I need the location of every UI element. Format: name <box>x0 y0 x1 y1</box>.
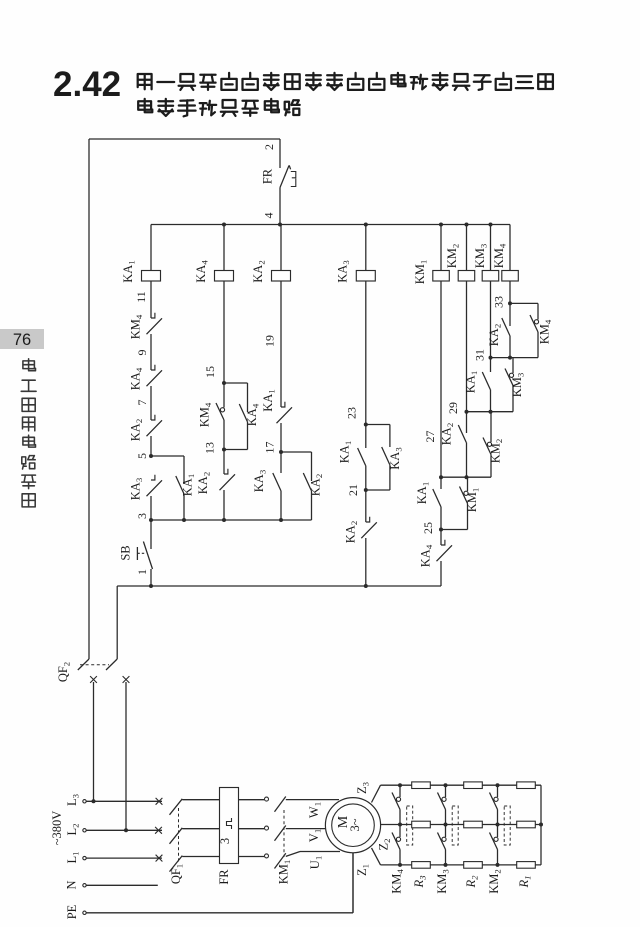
svg-text:KM4: KM4 <box>198 402 214 427</box>
rotor contactor KM3 lower contact <box>442 837 446 841</box>
svg-text:13: 13 <box>203 442 217 454</box>
svg-text:~380V: ~380V <box>50 811 64 846</box>
contactor KM1 main L3 blade <box>275 797 286 812</box>
svg-text:R3: R3 <box>412 875 428 889</box>
terminal x pole 2 <box>123 676 130 683</box>
wire node5 branch right <box>151 455 184 457</box>
svg-text:29: 29 <box>446 402 460 414</box>
contact KM1 circle-NO (branch) <box>464 491 468 495</box>
contact KA3 NO (col C) <box>273 473 281 491</box>
contactor KM1 main L3 circle <box>265 797 269 801</box>
wire branch drop KA1 <box>183 456 185 484</box>
resistor R1 row1 <box>517 782 536 789</box>
wire Z3 diagonal <box>372 785 381 802</box>
junction dots on rail 4 <box>222 223 226 227</box>
svg-text:3: 3 <box>218 838 232 844</box>
terminal circle PE <box>83 911 86 914</box>
terminal circle L3 <box>83 800 86 803</box>
junction <box>364 584 368 588</box>
KM1 power link <box>283 810 285 857</box>
terminal circle N <box>83 884 86 887</box>
wire <box>223 450 225 475</box>
wire PE <box>86 912 353 914</box>
pushbutton SB <box>136 547 138 560</box>
junction <box>279 518 283 522</box>
wire rail4 to coil KA2 <box>280 225 282 271</box>
rotor contactor KM3 junction dots <box>444 783 448 787</box>
contact KA3 NO (col D branch) <box>382 447 390 465</box>
title line 1 (Chinese) <box>138 74 152 89</box>
svg-text:KA1: KA1 <box>121 260 137 282</box>
svg-text:KA2: KA2 <box>440 423 456 445</box>
junction <box>222 518 226 522</box>
svg-text:KA1: KA1 <box>415 482 431 504</box>
wire node33 line <box>510 302 538 304</box>
node 33 junction <box>508 301 512 305</box>
svg-text:QF2: QF2 <box>56 662 72 682</box>
contact KA4 NC (col A) <box>147 370 163 386</box>
wire to U1 <box>286 852 300 857</box>
svg-text:FR: FR <box>261 168 275 184</box>
wire rail4 to coil KM3 <box>490 225 492 271</box>
wire to W1 <box>286 799 339 801</box>
rotor contactor KM2 link box <box>504 806 510 845</box>
wire SB to rail <box>150 569 152 586</box>
wire to bus3 <box>223 490 225 520</box>
rotor contactor KM2 wire mid <box>497 810 499 825</box>
wire to rail <box>440 561 442 586</box>
svg-text:11: 11 <box>134 291 148 303</box>
wire PE up to motor <box>352 853 354 913</box>
relay coil KM3 <box>482 271 499 282</box>
resistor R2 row3 <box>464 862 483 869</box>
wire rail4 to coil KA3 <box>365 225 367 271</box>
svg-text:15: 15 <box>203 366 217 378</box>
wire FR out L1 <box>239 856 265 858</box>
contactor KM1 main L1 blade <box>275 853 286 868</box>
svg-text:KM4: KM4 <box>390 869 406 894</box>
contact KA2 NO (col F) <box>458 425 466 443</box>
rotor contactor KM2 junction dots <box>496 783 500 787</box>
wire <box>223 420 225 450</box>
wire rotor row3 <box>381 864 542 866</box>
contact KA4 NC (col E) <box>437 545 453 561</box>
wire QF1 out L1 <box>182 856 219 858</box>
svg-text:KA4: KA4 <box>129 367 145 390</box>
svg-text:R2: R2 <box>464 875 480 889</box>
node 4 junction dot <box>278 223 282 227</box>
resistor R3 row3 <box>412 862 431 869</box>
x mark L3 <box>156 798 163 805</box>
svg-text:2.42: 2.42 <box>53 65 121 104</box>
wire <box>247 422 249 450</box>
wire <box>490 455 492 478</box>
rotor contactor KM2 upper contact <box>497 785 499 797</box>
junction <box>92 799 96 803</box>
svg-text:5: 5 <box>135 453 149 459</box>
wire QF1 out L3 <box>182 799 219 801</box>
svg-text:76: 76 <box>13 331 31 349</box>
svg-text:L3: L3 <box>65 793 81 806</box>
QF2 mechanical link <box>80 664 109 666</box>
wire to rail <box>365 538 367 586</box>
thermal relay contact FR <box>280 166 289 188</box>
wire <box>150 436 152 456</box>
svg-text:KA1: KA1 <box>464 371 480 393</box>
wire bus node 3 <box>151 519 312 521</box>
wire <box>150 334 152 370</box>
wire node29 line <box>467 411 514 413</box>
wire <box>466 412 468 433</box>
wire <box>365 466 367 491</box>
svg-text:7: 7 <box>135 400 149 406</box>
wire FR drop <box>279 139 281 168</box>
rotor contactor KM4 upper contact <box>399 785 401 797</box>
wire branch drop <box>311 452 313 481</box>
junction dots 29 <box>465 410 469 414</box>
wire <box>440 507 442 530</box>
wire node17 branch right <box>281 451 312 453</box>
wire <box>150 386 152 420</box>
resistor R2 row2 <box>464 821 483 828</box>
rotor contactor KM4 link box <box>407 806 413 845</box>
resistor R3 row1 <box>412 782 431 789</box>
sidebar page number box <box>0 329 44 349</box>
svg-text:KA3: KA3 <box>129 477 145 500</box>
node 21 junction <box>364 488 368 492</box>
wire node31 line <box>491 357 539 359</box>
resistor R1 row2 <box>517 821 536 828</box>
wire QF2 pole1 to L3 <box>93 682 95 801</box>
contact KM4 circle-NO (col B) <box>220 408 224 412</box>
svg-text:9: 9 <box>135 350 149 356</box>
svg-text:KA2: KA2 <box>129 419 145 441</box>
wire to V1 <box>286 828 326 830</box>
rotor contactor KM3 wire bot <box>445 850 447 865</box>
svg-text:KA2: KA2 <box>309 474 325 496</box>
svg-text:KM3: KM3 <box>510 372 526 397</box>
contact KM4 circle-NO (branch) <box>534 320 538 324</box>
wire coil KM3 down <box>490 281 492 358</box>
breaker QF1 blade L1 <box>170 856 183 872</box>
svg-text:21: 21 <box>346 484 360 496</box>
motor M outer circle <box>325 798 380 853</box>
wire L3 <box>86 800 162 802</box>
FR box heater symbol <box>227 818 232 829</box>
relay coil KM1 <box>433 271 450 282</box>
svg-text:L2: L2 <box>65 823 81 835</box>
svg-text:Z2: Z2 <box>377 838 393 850</box>
svg-text:KA4: KA4 <box>194 260 210 283</box>
wire coil KA3 down <box>365 281 367 425</box>
title line 2 (Chinese) <box>138 99 152 112</box>
wire <box>509 303 511 326</box>
svg-text:33: 33 <box>492 296 506 308</box>
breaker QF2 pole 2 blade <box>106 659 117 670</box>
wire coil KM4 down <box>509 281 511 303</box>
svg-text:U1: U1 <box>308 856 324 869</box>
wire branch drop <box>389 425 391 448</box>
svg-text:KM4: KM4 <box>492 243 508 268</box>
svg-text:KM4: KM4 <box>538 319 554 344</box>
wire Z1 diagonal <box>372 848 381 865</box>
svg-text:3: 3 <box>135 513 149 519</box>
svg-text:Z1: Z1 <box>355 864 371 876</box>
rotor contactor KM2 wire bot <box>497 850 499 865</box>
wire bottom rail node 1 <box>117 585 441 587</box>
wire branch drop <box>247 383 249 412</box>
svg-text:17: 17 <box>263 442 277 454</box>
wire rail4 to coil KA4 <box>223 225 225 271</box>
relay coil KA4 <box>215 271 234 282</box>
wire branch to bus3 <box>183 494 185 521</box>
wire <box>389 465 391 491</box>
svg-text:KM2: KM2 <box>445 244 461 269</box>
wire node15 branch right <box>224 382 248 384</box>
wire <box>490 412 492 442</box>
contact KA1 NO (col G) <box>482 372 490 390</box>
wire coil KA4 down <box>223 281 225 383</box>
terminal circle L1 <box>83 856 86 859</box>
breaker QF1 blade L2 <box>170 828 183 844</box>
contact KM4 NC (col A) <box>147 318 163 334</box>
node 23 junction <box>364 423 368 427</box>
svg-text:19: 19 <box>263 335 277 347</box>
wire L1 <box>86 857 162 859</box>
svg-text:1: 1 <box>135 569 149 575</box>
wire FR to node 4 <box>279 188 281 225</box>
svg-text:KA1: KA1 <box>338 441 354 463</box>
wire join 477 <box>441 476 491 478</box>
wire <box>467 477 469 491</box>
breaker QF2 pole 1 blade <box>78 659 89 670</box>
svg-text:QF1: QF1 <box>169 864 185 884</box>
wire motor bottom <box>352 853 354 913</box>
resistor R2 row1 <box>464 782 483 789</box>
wire rail4 to coil KM1 <box>440 225 442 271</box>
contact KA2 NO (col C branch) <box>303 473 311 491</box>
contact KA4 NO (col B branch) <box>239 404 247 422</box>
wire rotor right bar <box>540 785 542 865</box>
svg-text:V1: V1 <box>307 829 323 842</box>
node 17 junction <box>279 450 283 454</box>
contact KA3 NC (col A) <box>147 480 163 496</box>
thermal overload FR box <box>220 788 239 864</box>
contactor KM1 main L1 circle <box>265 854 269 858</box>
wire <box>440 530 442 546</box>
wire <box>150 496 152 549</box>
svg-text:PE: PE <box>65 904 79 919</box>
svg-text:23: 23 <box>345 407 359 419</box>
bus node 3 junctions <box>149 518 153 522</box>
svg-text:L1: L1 <box>65 851 81 863</box>
wire node 25 join <box>441 529 468 531</box>
QF1 mechanical link <box>178 808 180 864</box>
wire coil KM2 down <box>466 281 468 412</box>
wire rotor row1 <box>381 784 542 786</box>
node 15 junction <box>222 381 226 385</box>
relay coil KM4 <box>502 271 519 282</box>
contactor KM1 main L2 circle <box>265 826 269 830</box>
svg-text:KM3: KM3 <box>435 869 451 894</box>
svg-text:KA1: KA1 <box>181 474 197 496</box>
terminal circle L2 <box>83 829 86 832</box>
contact KM3 circle-NO (branch) <box>509 373 513 377</box>
wire <box>466 443 468 478</box>
contactor KM1 main L2 blade <box>275 826 286 841</box>
node 5 junction <box>149 454 153 458</box>
rotor contactor KM4 wire bot <box>399 850 401 865</box>
node 25 junction <box>439 528 443 532</box>
contact KA2 NC (col A) <box>147 420 163 436</box>
resistor R1 row3 <box>517 862 536 869</box>
svg-text:W1: W1 <box>307 802 323 818</box>
svg-text:KM3: KM3 <box>473 243 489 268</box>
wire rail corner down <box>116 586 118 659</box>
svg-text:KA3: KA3 <box>252 469 268 492</box>
relay coil KA1 <box>142 271 161 282</box>
wire <box>223 383 225 408</box>
wire node23 branch right <box>366 424 390 426</box>
contact KA2 NO (col H) <box>502 318 510 336</box>
wire <box>537 332 539 358</box>
wire <box>365 490 367 522</box>
wire rail4 to coil KM4 <box>509 225 511 271</box>
sidebar vertical book title <box>23 359 36 371</box>
svg-text:KA2: KA2 <box>251 260 267 282</box>
svg-text:Z3: Z3 <box>355 781 371 794</box>
svg-text:31: 31 <box>473 349 487 361</box>
wire rail4 to coil KA1 <box>150 225 152 271</box>
wire rail4 to coil KM2 <box>466 225 468 271</box>
svg-text:2: 2 <box>262 144 276 150</box>
wire QF1 out L2 <box>182 828 219 830</box>
wire coil KM1 down <box>440 281 442 477</box>
wire L2 <box>86 829 162 831</box>
wire <box>440 477 442 489</box>
motor M inner circle <box>332 804 375 847</box>
wire FR out L2 <box>239 828 265 830</box>
wire <box>365 425 367 449</box>
wire <box>280 491 282 521</box>
wire <box>512 358 514 373</box>
x mark L1 <box>156 855 163 862</box>
contact KA2 NC (col B) <box>220 474 236 490</box>
svg-text:KM2: KM2 <box>487 869 503 894</box>
contact KA1 NC (col C) <box>277 407 293 423</box>
svg-text:KA2: KA2 <box>344 521 360 543</box>
rotor contactor KM3 link box <box>452 806 458 845</box>
svg-text:R1: R1 <box>517 875 533 888</box>
junctions on 477 <box>439 475 443 479</box>
rotor contactor KM4 lower contact <box>396 837 400 841</box>
junction <box>124 828 128 832</box>
svg-text:KM1: KM1 <box>413 260 429 285</box>
node 13 junction <box>222 448 226 452</box>
svg-text:KA2: KA2 <box>196 472 212 494</box>
wire left supply rail <box>88 139 90 659</box>
junction dots 31 <box>489 356 493 360</box>
wire <box>311 491 313 521</box>
svg-text:KA1: KA1 <box>261 389 277 411</box>
wire <box>280 423 282 452</box>
x mark L2 <box>155 827 162 834</box>
rotor contactor KM4 junction dots <box>398 783 402 787</box>
terminal x pole 1 <box>90 676 97 683</box>
wire Z2 <box>381 824 541 826</box>
wire <box>537 303 539 319</box>
wire <box>490 358 492 372</box>
resistor R3 row2 <box>412 821 431 828</box>
junction right bar <box>539 823 543 827</box>
wire <box>512 386 514 412</box>
wire top rail (node 2 feed) <box>89 138 280 140</box>
relay coil KM2 <box>458 271 475 282</box>
relay coil KA2 <box>272 271 291 282</box>
junction SB-rail <box>149 584 153 588</box>
wire <box>490 390 492 412</box>
svg-text:N: N <box>65 880 79 889</box>
relay coil KA3 <box>356 271 375 282</box>
wire <box>280 452 282 473</box>
wire <box>509 336 511 358</box>
svg-text:KA3: KA3 <box>336 260 352 283</box>
contact KM2 circle-NO (branch) <box>487 442 491 446</box>
wire coil KA2 down <box>280 281 282 407</box>
svg-text:KA2: KA2 <box>487 324 503 346</box>
svg-text:3~: 3~ <box>348 818 362 831</box>
wire rail node 4 <box>151 224 510 226</box>
contact KA2 NC (col D) <box>361 522 377 538</box>
wire FR out L3 <box>239 799 265 801</box>
svg-text:FR: FR <box>217 869 231 885</box>
svg-text:25: 25 <box>421 522 435 534</box>
wire node 13 join <box>224 449 248 451</box>
wire N <box>86 884 158 886</box>
contact KA1 NO (col E) <box>433 489 441 507</box>
wire coil KA1 down <box>150 281 152 318</box>
svg-text:27: 27 <box>423 431 437 443</box>
svg-text:KA4: KA4 <box>419 544 435 567</box>
rotor contactor KM2 lower contact <box>494 837 498 841</box>
rotor contactor KM3 wire mid <box>445 810 447 825</box>
wire <box>467 504 469 530</box>
wire QF2 pole2 to L2 <box>125 682 127 830</box>
contact KA1 NO (col A branch) <box>176 476 184 494</box>
contact KA1 NO (col D) <box>358 448 366 466</box>
rotor contactor KM3 upper contact <box>445 785 447 797</box>
svg-text:4: 4 <box>262 213 276 219</box>
rotor contactor KM4 wire mid <box>399 810 401 825</box>
svg-text:KM4: KM4 <box>129 314 145 339</box>
wire node 21 join <box>366 489 390 491</box>
svg-text:SB: SB <box>119 545 133 560</box>
breaker QF1 blade L3 <box>170 799 183 815</box>
